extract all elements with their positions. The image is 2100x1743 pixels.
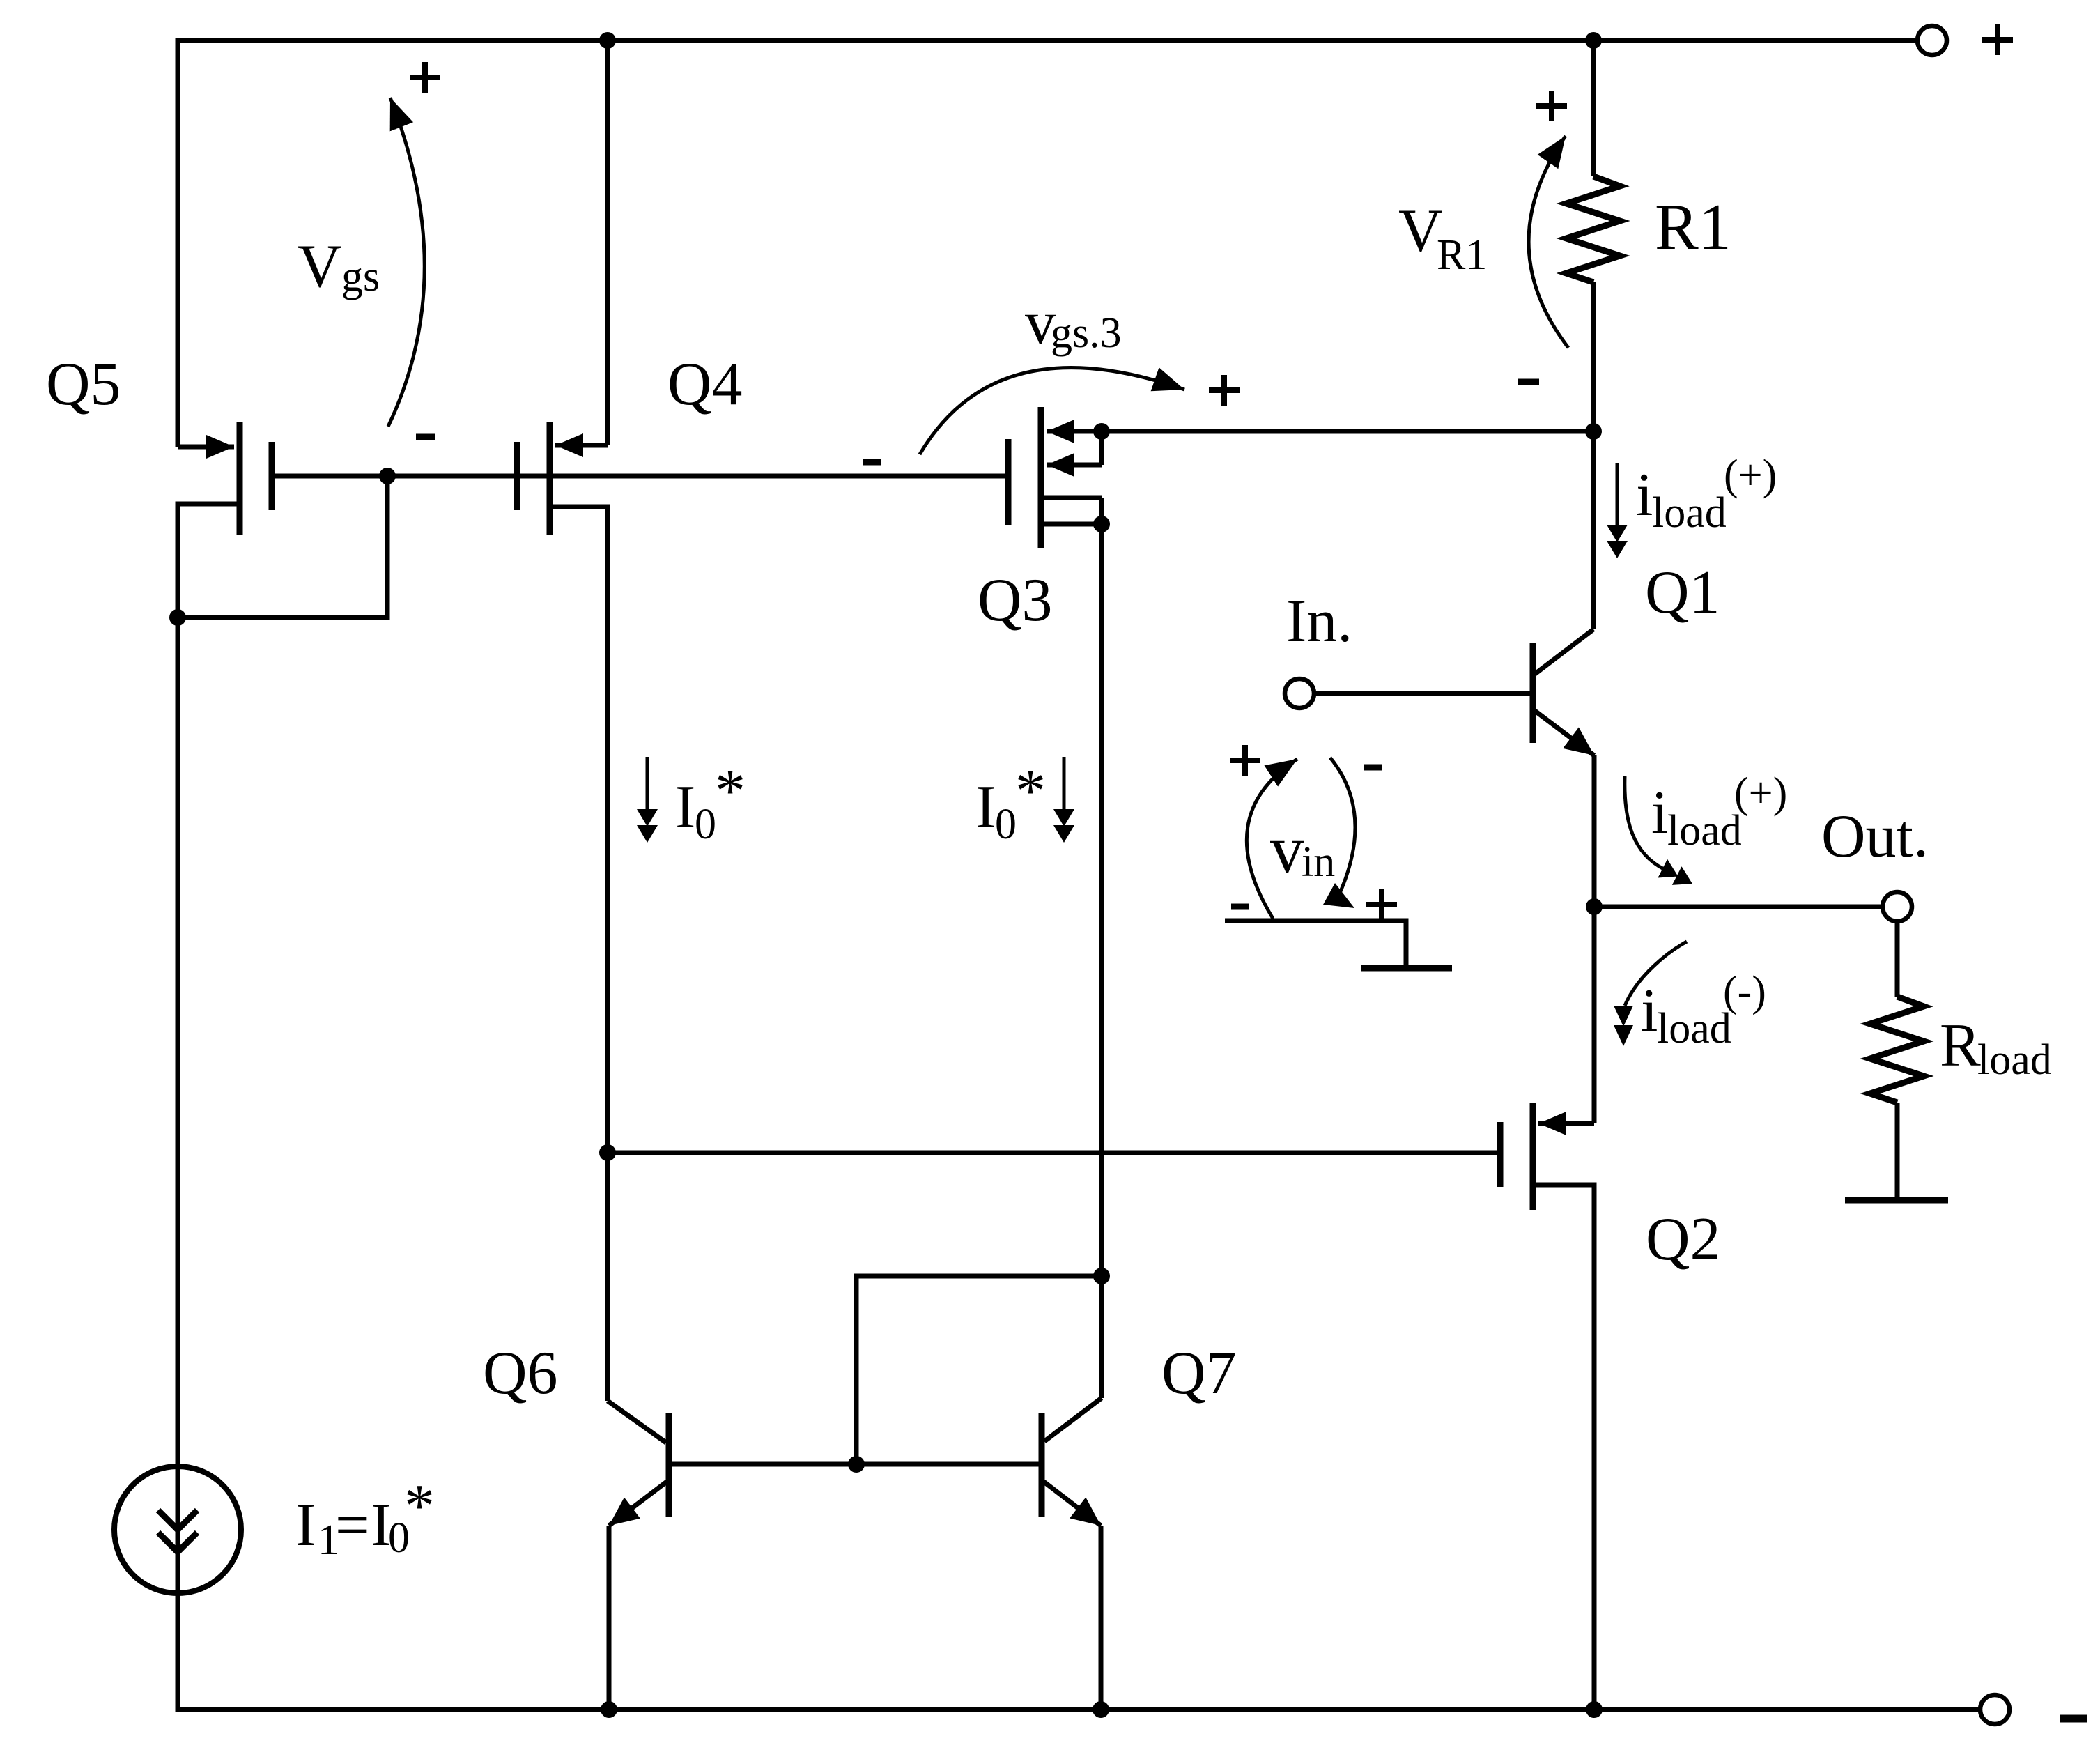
svg-text:R1: R1 xyxy=(1437,231,1487,279)
svg-text:load: load xyxy=(1977,1036,2052,1084)
iload(-) arrowhead 2 xyxy=(1614,1025,1633,1046)
svg-text:I: I xyxy=(295,1491,316,1559)
Q6 emitter diagonal with arrow xyxy=(609,1482,667,1526)
vin right arrowhead xyxy=(1323,883,1354,908)
Q4 gate bar xyxy=(514,442,520,510)
svg-text:*: * xyxy=(1015,758,1046,825)
VR1 voltage arc arrow xyxy=(1529,136,1568,348)
iload(+) straight arrow (below R1) xyxy=(1616,463,1619,526)
Q3 source stub xyxy=(1099,431,1104,465)
wire: output node to Out terminal xyxy=(1594,905,1883,909)
svg-text:*: * xyxy=(715,758,746,825)
minus sign Vgs xyxy=(416,434,435,440)
svg-text:(+): (+) xyxy=(1734,769,1787,817)
Q1 emitter diagonal with arrow xyxy=(1535,711,1594,755)
svg-text:V: V xyxy=(298,233,342,300)
terminal + (top right) xyxy=(1917,26,1947,55)
R1 bottom lead down to Q1 collector xyxy=(1591,282,1596,629)
terminal In. circle xyxy=(1285,679,1314,708)
node: bottom rail / Q7 emitter xyxy=(1093,1701,1109,1718)
Q7 emitter vertical to bottom rail xyxy=(1099,1526,1104,1710)
Q7 base bar xyxy=(1039,1413,1045,1517)
Q7 emitter diagonal with arrow xyxy=(1044,1482,1101,1526)
Vgs voltage arc arrow xyxy=(388,98,424,427)
svg-text:i: i xyxy=(1651,779,1668,847)
node: Q3 source node xyxy=(1093,423,1110,440)
terminal - (bottom right) xyxy=(1980,1695,2009,1724)
svg-text:gs.3: gs.3 xyxy=(1051,309,1122,357)
svg-text:i: i xyxy=(1641,977,1658,1045)
svg-text:(-): (-) xyxy=(1723,968,1766,1015)
negative supply rail (bottom) xyxy=(178,617,1980,1710)
wire: Q4 drain node to Q2 gate xyxy=(608,1151,1497,1155)
node: Q4 drain / Q2 gate wire junction xyxy=(599,1144,616,1161)
minus sign bottom right xyxy=(2060,1715,2087,1723)
I1 arrow chevron 1 xyxy=(158,1510,197,1530)
svg-text:(+): (+) xyxy=(1724,452,1777,499)
svg-text:load: load xyxy=(1652,489,1727,537)
I1 arrow chevron 2 xyxy=(158,1533,197,1552)
node: top rail / R1 junction xyxy=(1585,32,1602,49)
minus sign vin bottom-left xyxy=(1231,904,1249,910)
node: output node xyxy=(1586,898,1603,915)
svg-text:v: v xyxy=(1270,812,1304,886)
svg-text:0: 0 xyxy=(695,801,716,848)
resistor R1 : top lead xyxy=(1591,40,1596,176)
svg-text:Q1: Q1 xyxy=(1645,559,1720,627)
Q7 collector diagonal xyxy=(1044,1398,1102,1441)
minus sign VR1 xyxy=(1518,379,1539,385)
plus sign Vgs xyxy=(410,62,440,93)
current source I1 xyxy=(114,1466,241,1593)
Q6 base lead xyxy=(672,1462,856,1467)
Q4 source lead with arrow xyxy=(555,443,608,448)
plus sign vgs.3 xyxy=(1209,375,1240,406)
plus sign top right xyxy=(1982,24,2013,55)
I0* arrow (left branch) xyxy=(646,757,649,811)
Q4 drain lead and vertical down to Q6 xyxy=(550,507,608,1401)
Q5 channel bar xyxy=(237,422,243,535)
node: R1 bottom / Q3 source / Q1 collector xyxy=(1585,423,1602,440)
minus sign vin top-right xyxy=(1364,765,1382,771)
svg-text:*: * xyxy=(404,1473,435,1540)
svg-text:load: load xyxy=(1657,1005,1731,1052)
Rload zigzag body xyxy=(1870,997,1924,1103)
plus sign vin bottom-right xyxy=(1366,889,1397,920)
iload(-) curved arrow (below output node) xyxy=(1625,942,1687,1006)
terminal Out. circle xyxy=(1883,892,1912,921)
svg-text:Q3: Q3 xyxy=(978,567,1053,634)
node: Q7 base-collector tie junction xyxy=(1093,1268,1110,1284)
svg-text:0: 0 xyxy=(995,801,1017,848)
node: top rail / Q4 source junction xyxy=(599,32,616,49)
transistor Q3 (double PMOS) : gate bar xyxy=(1005,439,1012,525)
Q6 base bar xyxy=(666,1413,672,1517)
node: Q3 drain junction xyxy=(1093,516,1110,532)
node: bottom rail / Q2 drain xyxy=(1586,1701,1603,1718)
Q3 source lead 1 with arrow xyxy=(1047,429,1102,434)
plus sign VR1 xyxy=(1536,91,1567,121)
node: Q5 drain junction xyxy=(169,609,186,626)
Q2 source lead with arrow xyxy=(1538,1121,1594,1126)
svg-text:gs: gs xyxy=(341,253,380,300)
transistor Q7 (NPN mirror, diode-connected) : base lead xyxy=(856,1462,1039,1467)
svg-text:Q2: Q2 xyxy=(1646,1206,1721,1273)
iload(-) arrowhead 1 xyxy=(1614,1006,1633,1027)
svg-text:in: in xyxy=(1302,838,1335,886)
Q1 base lead from In terminal xyxy=(1314,691,1530,696)
transistor Q4 (PMOS) : source vertical from top rail xyxy=(605,40,610,445)
wire: Q5 drain to gate feedback xyxy=(178,476,387,617)
Q2 channel bar xyxy=(1530,1103,1536,1210)
Q1 emitter vertical to output node xyxy=(1592,755,1597,907)
svg-text:Q7: Q7 xyxy=(1161,1339,1237,1407)
plus sign vin top-left xyxy=(1230,745,1260,776)
vin left arc arrow xyxy=(1246,759,1297,919)
R1 zigzag body xyxy=(1566,176,1620,282)
transistor Q1 (NPN) : collector diagonal xyxy=(1535,629,1593,674)
vin right arc arrow xyxy=(1330,758,1355,898)
Q3 drain lead 1 xyxy=(1041,496,1102,500)
vgs.3 voltage arc arrow xyxy=(920,368,1184,454)
Q6 emitter vertical to bottom rail xyxy=(607,1526,612,1710)
Q2 drain lead and vertical to bottom rail xyxy=(1533,1185,1594,1710)
node: Q5 gate/drain tie on gate bus xyxy=(379,468,396,484)
wire: Q7 base-collector tie xyxy=(856,1276,1102,1464)
svg-text:i: i xyxy=(1636,461,1653,529)
ground (Rload) xyxy=(1845,1197,1948,1204)
wire: Q3 source to R1 bottom node xyxy=(1102,429,1593,434)
Q3 drain lead 2 xyxy=(1041,522,1102,527)
svg-text:I: I xyxy=(675,774,695,841)
transistor Q2 (NMOS) : source vertical from output node xyxy=(1592,907,1597,1123)
node: mirror base node xyxy=(848,1456,865,1473)
svg-text:R: R xyxy=(1940,1012,1981,1080)
minus sign vgs.3 xyxy=(863,459,881,466)
Q4 channel bar xyxy=(547,422,553,535)
Q3 channel bar xyxy=(1038,407,1044,548)
Q2 gate bar xyxy=(1497,1122,1504,1187)
svg-text:Q6: Q6 xyxy=(483,1339,558,1407)
Q5 drain lead xyxy=(178,504,240,617)
Q3 source lead 2 with arrow xyxy=(1047,463,1102,468)
transistor Q5 (diode-connected PMOS, left) : source lead with arrow xyxy=(178,445,234,450)
svg-text:Out.: Out. xyxy=(1821,803,1929,870)
gate bus wire Q5-Q4-Q3 xyxy=(272,474,1008,479)
iload(+) curved arrow (above output node) xyxy=(1625,776,1664,869)
svg-text:Q5: Q5 xyxy=(46,351,121,418)
svg-text:=: = xyxy=(335,1491,370,1559)
Q3 drain vertical down to Q7 collector xyxy=(1099,498,1104,1398)
node: bottom rail / Q6 emitter xyxy=(601,1701,617,1718)
I0* arrow (right branch) xyxy=(1063,757,1066,811)
Rload bottom lead xyxy=(1895,1103,1900,1197)
Q1 base bar xyxy=(1530,643,1536,743)
svg-text:load: load xyxy=(1667,807,1742,854)
svg-text:I: I xyxy=(975,774,996,841)
svg-text:R1: R1 xyxy=(1655,191,1731,263)
svg-text:In.: In. xyxy=(1286,588,1352,655)
positive supply rail (top) xyxy=(178,40,1917,447)
ground (vin) xyxy=(1361,965,1452,972)
resistor Rload : top lead xyxy=(1895,921,1900,997)
transistor Q6 (NPN mirror, left) : collector diagonal xyxy=(608,1401,666,1443)
svg-text:Q4: Q4 xyxy=(667,351,743,418)
vin reference floor line xyxy=(1225,921,1406,965)
Q5 gate bar xyxy=(269,442,275,510)
